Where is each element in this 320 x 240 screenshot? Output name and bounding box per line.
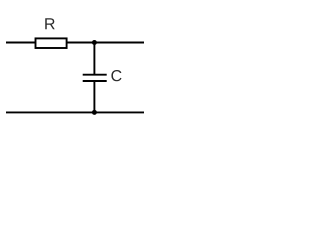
label R	[45, 18, 55, 29]
resistor R	[36, 38, 67, 48]
node: top junction dot	[92, 40, 97, 45]
wire: capacitor upper lead	[93, 43, 95, 75]
node: bottom junction dot	[92, 110, 97, 115]
wire: capacitor lower lead	[93, 81, 95, 112]
wire: top input lead (left)	[6, 42, 36, 44]
wire: top output segment (resistor to right edge)	[67, 42, 144, 44]
wire: bottom rail	[6, 111, 144, 113]
label C	[111, 70, 121, 81]
capacitor C top plate	[83, 74, 107, 76]
capacitor C bottom plate	[83, 80, 107, 82]
